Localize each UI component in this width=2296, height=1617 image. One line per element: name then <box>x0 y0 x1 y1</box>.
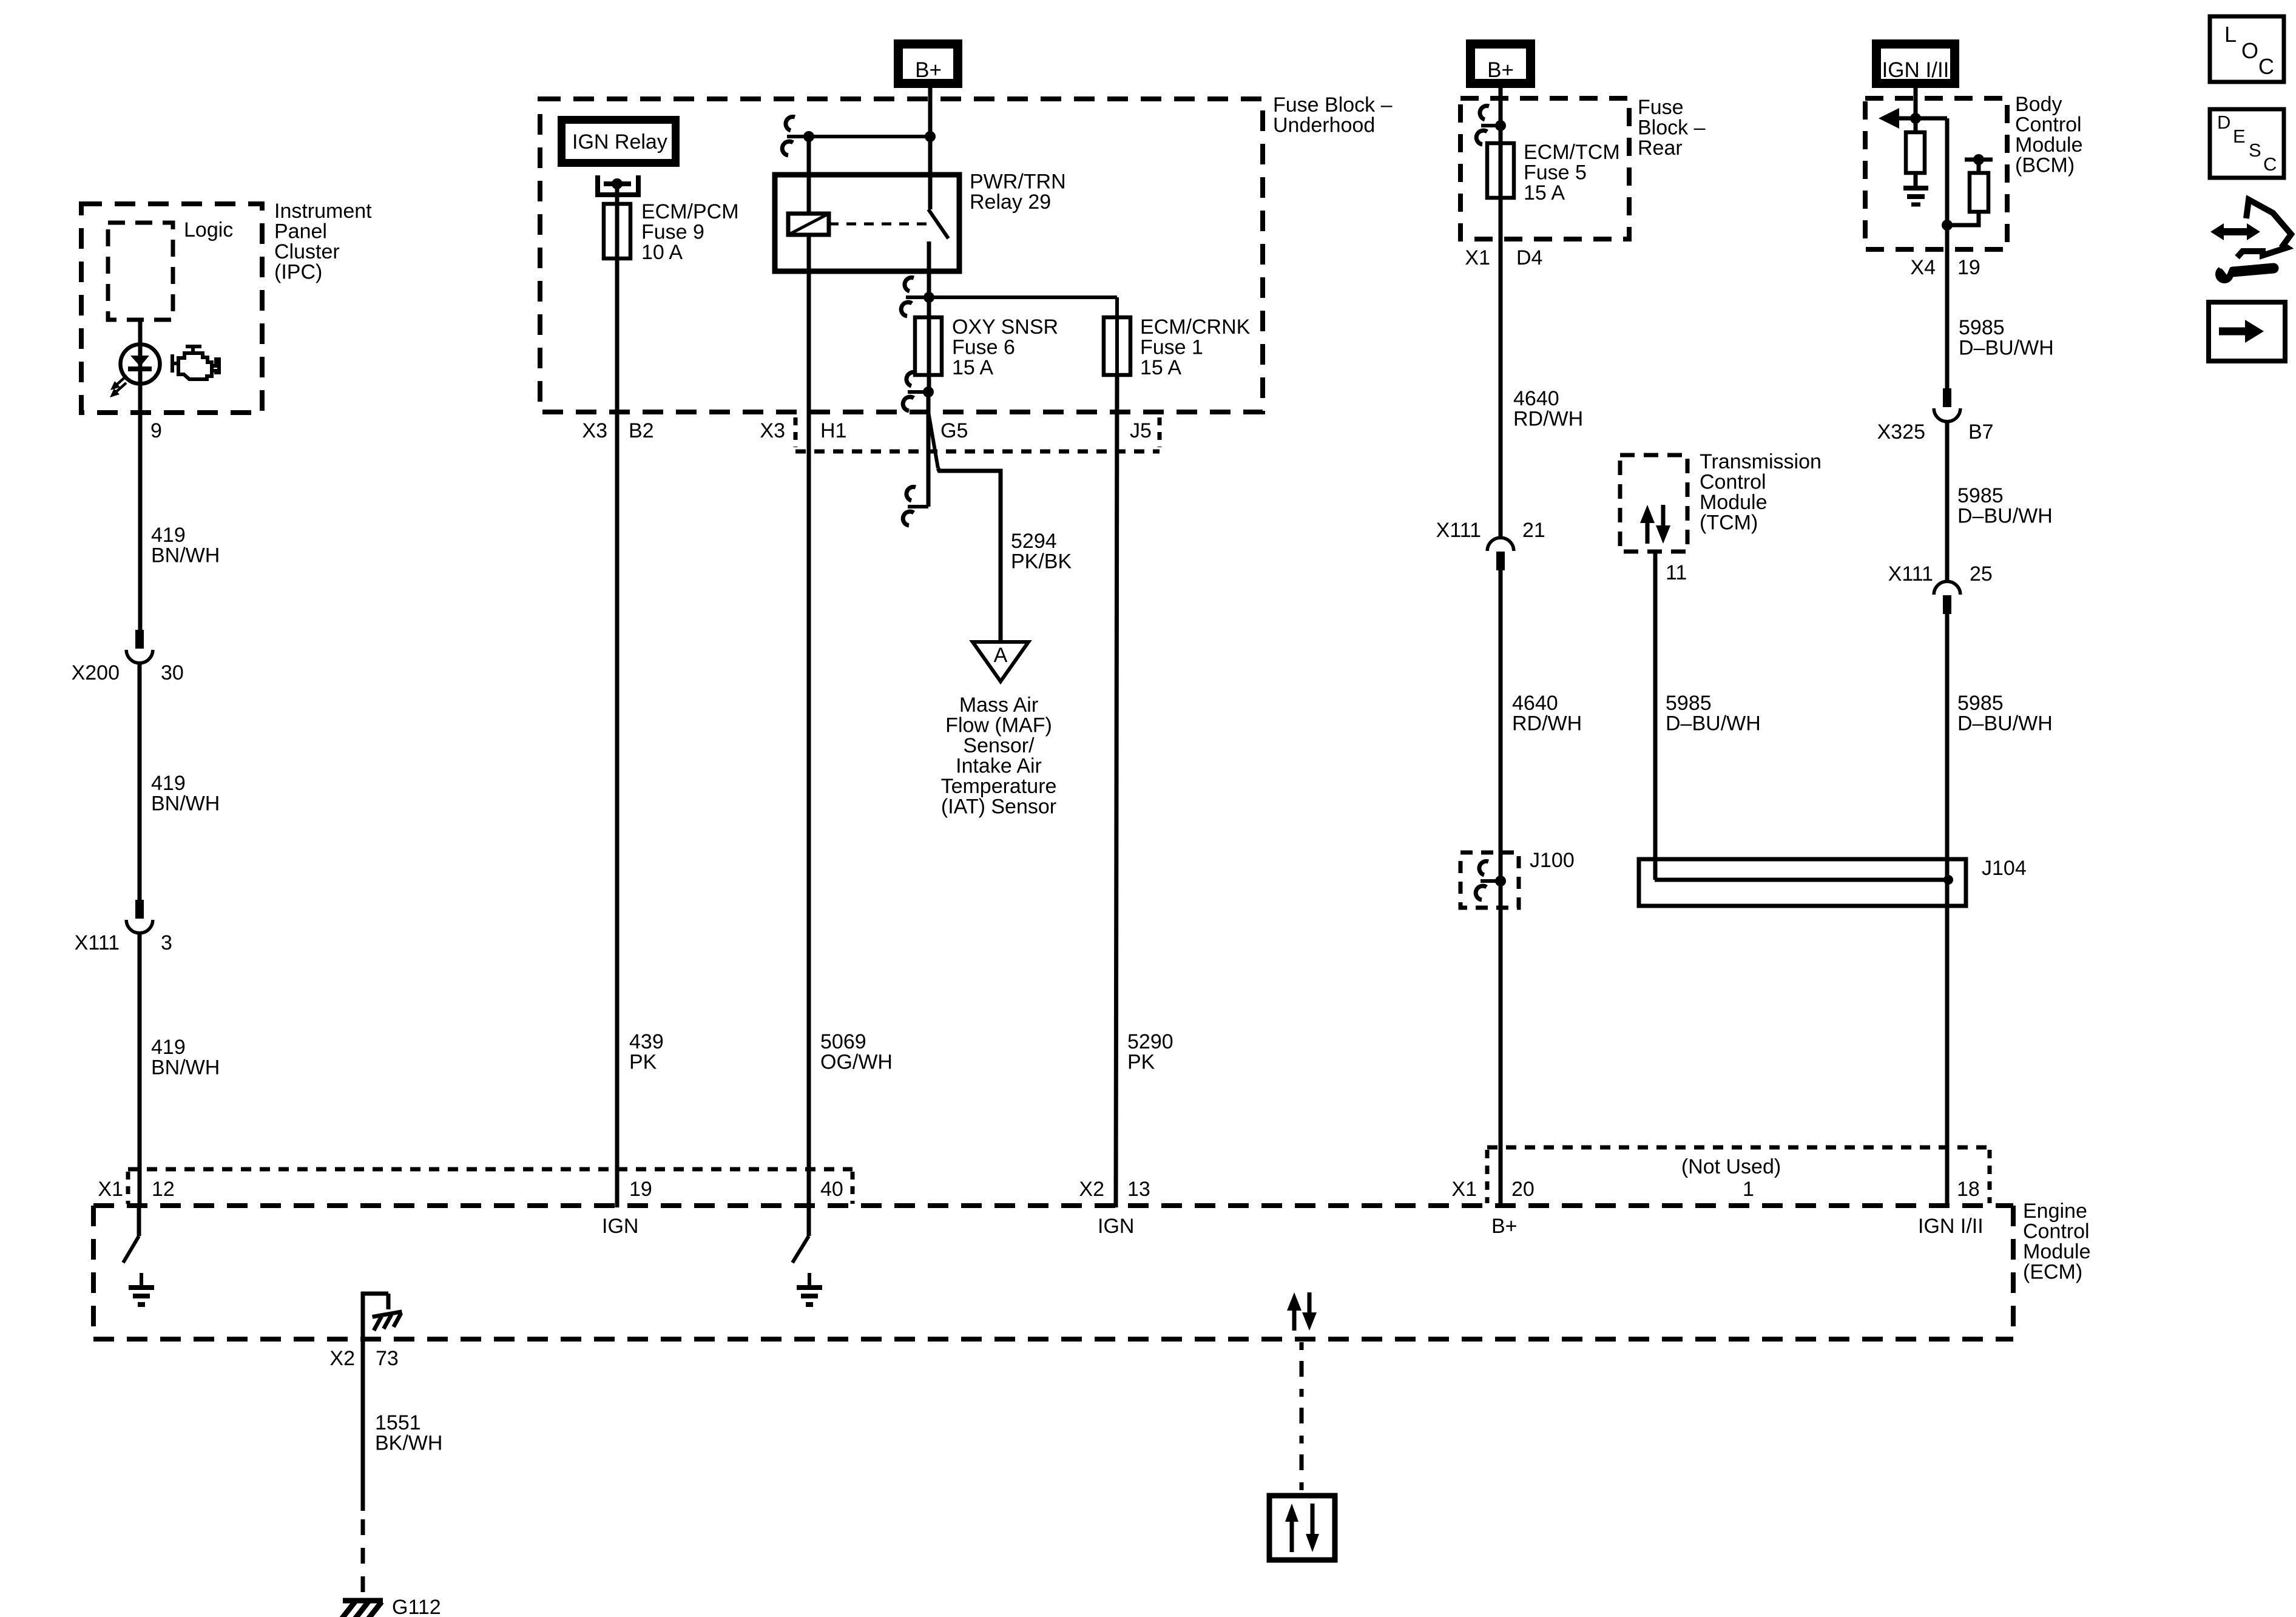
svg-text:BN/WH: BN/WH <box>151 792 220 815</box>
BCM corner wire down <box>1945 118 1950 225</box>
inline connector X111 pin 25 <box>1934 581 1960 595</box>
svg-text:Rear: Rear <box>1638 137 1683 160</box>
fuse F1 ECM/CRNK Fuse 1 15A <box>1104 317 1130 375</box>
engine icon (MIL) <box>172 346 219 379</box>
chassis ground symbol (internal) <box>371 1312 404 1331</box>
svg-text:D: D <box>2217 112 2230 133</box>
svg-text:Logic: Logic <box>184 218 233 241</box>
svg-text:25: 25 <box>1970 562 1993 586</box>
svg-text:X1: X1 <box>1451 1178 1477 1201</box>
svg-text:40: 40 <box>820 1178 843 1201</box>
svg-text:Fuse 5: Fuse 5 <box>1524 161 1587 184</box>
svg-text:Module: Module <box>2015 133 2083 157</box>
svg-text:15 A: 15 A <box>1524 181 1565 204</box>
svg-text:X1: X1 <box>98 1178 123 1201</box>
not-used box left tick <box>1485 1150 1490 1203</box>
wire 1551 below ECM <box>361 1339 365 1511</box>
connector band left tick <box>794 417 798 447</box>
ECM pin row left tick <box>126 1172 130 1204</box>
fuse F9 top bracket <box>598 175 638 195</box>
svg-text:3: 3 <box>161 931 172 954</box>
svg-text:J104: J104 <box>1982 857 2027 880</box>
inline connector X111 pin 21 <box>1487 538 1514 551</box>
svg-text:Fuse 1: Fuse 1 <box>1140 336 1203 359</box>
svg-text:B+: B+ <box>1487 58 1514 82</box>
sidebar double arrow <box>2221 228 2249 235</box>
splice box J100 <box>1460 852 1519 908</box>
TCM serial data arrows <box>1646 521 1650 544</box>
svg-text:X111: X111 <box>1436 519 1481 542</box>
off-page box arrows <box>1290 1519 1294 1552</box>
BCM right branch <box>1947 212 1979 225</box>
svg-text:9: 9 <box>150 419 162 442</box>
LED wire through <box>138 343 143 385</box>
svg-text:Control: Control <box>1700 471 1766 494</box>
svg-text:Fuse 9: Fuse 9 <box>641 221 704 244</box>
ECM serial data arrows <box>1292 1308 1297 1331</box>
svg-text:B+: B+ <box>915 58 942 82</box>
wire J5 column 5290 <box>1116 375 1117 1207</box>
wire G5 column upper <box>927 392 931 412</box>
svg-text:(Not Used): (Not Used) <box>1681 1155 1781 1178</box>
wire B+ down <box>928 88 933 175</box>
stub+hooks J100 <box>1481 879 1501 883</box>
wire 4640 seg1 <box>1499 143 1503 536</box>
relay switch blade <box>928 209 948 238</box>
svg-text:IGN: IGN <box>602 1215 638 1238</box>
wire G5 stub down <box>927 412 931 507</box>
wire coil column 5069 down <box>807 271 811 1207</box>
junction dot J104 <box>1943 875 1953 885</box>
junction dot fuse6 bottom <box>923 387 934 397</box>
relay box PWR/TRN Relay 29 <box>775 175 959 271</box>
svg-text:O: O <box>2241 38 2258 63</box>
ECM box right edge <box>2011 1206 2016 1339</box>
stub+hooks at fuse6 top junction <box>906 295 929 299</box>
svg-text:419: 419 <box>151 772 186 795</box>
chassis ground G112 <box>343 1598 383 1604</box>
svg-text:Fuse 6: Fuse 6 <box>952 336 1015 359</box>
stub+hooks fuse5 <box>1481 124 1501 127</box>
wire 1551 dashed to ground <box>361 1519 365 1598</box>
svg-text:OG/WH: OG/WH <box>820 1051 893 1074</box>
svg-text:C: C <box>2263 154 2277 175</box>
svg-text:1: 1 <box>1743 1178 1754 1201</box>
svg-text:ECM/TCM: ECM/TCM <box>1524 141 1620 164</box>
svg-text:Control: Control <box>2015 113 2082 137</box>
svg-text:Engine: Engine <box>2023 1200 2087 1223</box>
ECM box bottom <box>93 1337 2013 1342</box>
svg-text:439: 439 <box>629 1030 664 1053</box>
connector blade G5 <box>928 412 938 468</box>
svg-text:IGN Relay: IGN Relay <box>572 130 667 154</box>
wire BCM out <box>1945 225 1950 388</box>
junction dot coil feed <box>803 131 814 142</box>
ground inside ECM (pin40) <box>808 1273 811 1288</box>
svg-text:IGN I/II: IGN I/II <box>1882 58 1950 82</box>
wire coil to box bottom <box>807 235 811 271</box>
wire pin 12 into ECM <box>137 1206 141 1236</box>
relay coil <box>788 214 829 235</box>
svg-text:E: E <box>2233 126 2246 147</box>
svg-text:4640: 4640 <box>1512 692 1558 715</box>
svg-text:L: L <box>2224 22 2237 47</box>
svg-text:Transmission: Transmission <box>1700 450 1822 473</box>
svg-text:X3: X3 <box>582 419 607 442</box>
svg-text:Block –: Block – <box>1638 116 1706 140</box>
ECM pin row dotted line <box>128 1167 853 1172</box>
junction dot B+ wire <box>925 131 936 142</box>
fuse block underhood dashed box <box>540 99 1263 412</box>
svg-text:D4: D4 <box>1516 246 1542 269</box>
svg-text:419: 419 <box>151 1036 186 1059</box>
svg-text:4640: 4640 <box>1513 387 1559 410</box>
svg-text:ECM/CRNK: ECM/CRNK <box>1140 316 1251 339</box>
svg-text:(IPC): (IPC) <box>274 261 322 284</box>
LED diode triangle <box>130 356 149 366</box>
wire IGN I/II into BCM <box>1914 88 1918 132</box>
svg-text:G5: G5 <box>940 419 968 442</box>
wire 4640 seg2 <box>1499 570 1503 1206</box>
svg-text:A: A <box>994 644 1008 667</box>
svg-text:Flow (MAF): Flow (MAF) <box>945 714 1052 737</box>
stub+hooks below fuse6 <box>908 390 928 394</box>
junction dot BCM lower <box>1942 220 1953 231</box>
svg-text:18: 18 <box>1957 1178 1980 1201</box>
wire B+ into rear box <box>1499 88 1503 143</box>
svg-text:Cluster: Cluster <box>274 240 340 263</box>
svg-text:B+: B+ <box>1491 1215 1518 1238</box>
junction dot J100 <box>1495 876 1506 886</box>
svg-text:IGN: IGN <box>1098 1215 1134 1238</box>
relay dashed control link <box>829 223 927 226</box>
switch blade pin 40 <box>792 1236 809 1263</box>
IGN Relay label box <box>558 116 680 167</box>
relay switch wire upper <box>928 175 933 209</box>
svg-text:Body: Body <box>2015 93 2062 116</box>
svg-text:Instrument: Instrument <box>274 200 372 223</box>
ground inside ECM (pin12) <box>140 1273 143 1288</box>
svg-text:X1: X1 <box>1465 246 1490 269</box>
junction dot fuse6 top <box>923 292 934 303</box>
off-page arrow A (MAF) <box>973 642 1028 681</box>
J104 internal wire <box>1655 878 1948 882</box>
svg-text:30: 30 <box>161 661 184 684</box>
svg-text:19: 19 <box>629 1178 652 1201</box>
indicator LED L1 circle <box>121 345 160 384</box>
sidebar connector-tool icon outline <box>2237 200 2291 257</box>
svg-text:ECM/PCM: ECM/PCM <box>641 200 739 223</box>
svg-text:10 A: 10 A <box>641 241 683 264</box>
wire 419 segment 3 <box>138 933 142 1207</box>
svg-text:D–BU/WH: D–BU/WH <box>1957 505 2053 528</box>
svg-text:13: 13 <box>1127 1178 1150 1201</box>
svg-text:5985: 5985 <box>1666 692 1712 715</box>
svg-text:S: S <box>2249 140 2261 161</box>
svg-text:X111: X111 <box>75 931 120 954</box>
svg-text:Fuse: Fuse <box>1638 96 1684 119</box>
wire pin 40 into ECM <box>807 1206 811 1236</box>
svg-text:Module: Module <box>2023 1240 2091 1263</box>
BCM arrow to left <box>1897 116 1947 121</box>
module box Transmission Control Module (TCM) <box>1620 455 1687 552</box>
wire 419 segment 2 <box>138 663 142 900</box>
svg-text:X200: X200 <box>72 661 120 684</box>
svg-text:Temperature: Temperature <box>941 775 1057 798</box>
svg-text:C: C <box>2258 54 2274 79</box>
wire LED to pin 9 <box>138 385 143 630</box>
svg-text:PK: PK <box>1127 1051 1155 1074</box>
bus wire to fuse 1 <box>929 295 1117 299</box>
junction dot BCM top <box>1910 113 1921 124</box>
resistor R1 in BCM <box>1906 132 1925 173</box>
svg-text:B7: B7 <box>1968 420 1994 444</box>
svg-text:X4: X4 <box>1910 256 1936 279</box>
svg-text:Panel: Panel <box>274 220 327 243</box>
svg-text:Underhood: Underhood <box>1273 114 1375 137</box>
fuse F5 ECM/TCM Fuse 5 15A <box>1487 143 1514 198</box>
svg-text:(BCM): (BCM) <box>2015 154 2075 177</box>
svg-text:X325: X325 <box>1877 420 1925 444</box>
svg-text:Intake Air: Intake Air <box>956 755 1042 778</box>
svg-text:RD/WH: RD/WH <box>1513 408 1583 431</box>
module box Engine Control Module (ECM) top <box>93 1203 2013 1208</box>
wire TCM to J104 <box>1653 552 1658 880</box>
sidebar DESC box <box>2210 109 2284 178</box>
svg-text:J5: J5 <box>1130 419 1152 442</box>
svg-text:BK/WH: BK/WH <box>375 1432 442 1455</box>
svg-text:PWR/TRN: PWR/TRN <box>970 170 1066 194</box>
svg-text:X2: X2 <box>329 1347 355 1370</box>
svg-text:20: 20 <box>1511 1178 1535 1201</box>
ground in BCM <box>1903 186 1928 191</box>
svg-text:H1: H1 <box>820 419 846 442</box>
svg-text:Sensor/: Sensor/ <box>963 734 1035 757</box>
ECM box left edge <box>91 1206 96 1339</box>
LED emission arrows <box>116 376 127 385</box>
svg-text:(IAT) Sensor: (IAT) Sensor <box>941 795 1056 819</box>
svg-text:Control: Control <box>2023 1220 2090 1243</box>
svg-text:PK: PK <box>629 1051 657 1074</box>
R2 top T-bar <box>1965 158 1993 162</box>
svg-text:B2: B2 <box>629 419 654 442</box>
LED cathode bar <box>128 366 152 371</box>
svg-text:5985: 5985 <box>1959 316 2005 339</box>
svg-text:(ECM): (ECM) <box>2023 1261 2082 1284</box>
svg-text:Fuse Block –: Fuse Block – <box>1273 93 1393 116</box>
svg-text:OXY SNSR: OXY SNSR <box>952 316 1058 339</box>
svg-text:J100: J100 <box>1530 849 1575 872</box>
splice bus J104 <box>1639 859 1966 906</box>
svg-text:D–BU/WH: D–BU/WH <box>1959 337 2054 360</box>
sidebar arrow box <box>2209 302 2285 361</box>
svg-text:5985: 5985 <box>1957 484 2004 507</box>
junction dot fuse5 top <box>1495 120 1506 131</box>
bus wire to relay coil <box>787 135 930 138</box>
svg-text:X2: X2 <box>1079 1178 1104 1201</box>
svg-text:PK/BK: PK/BK <box>1011 550 1072 573</box>
serial data off-page box <box>1269 1496 1335 1560</box>
power feed box B+ (center) <box>894 39 962 88</box>
wire 5985 seg3 <box>1945 614 1950 1206</box>
module box Instrument Panel Cluster (IPC) <box>81 204 262 413</box>
svg-text:21: 21 <box>1522 519 1545 542</box>
wire coil feed down <box>807 137 811 214</box>
wire pin 20 <box>1499 916 1503 1206</box>
svg-text:BN/WH: BN/WH <box>151 544 220 567</box>
wire 5985 seg2 <box>1945 422 1950 580</box>
svg-text:1551: 1551 <box>375 1411 421 1434</box>
wire pin 18 <box>1945 899 1950 1206</box>
svg-text:5290: 5290 <box>1127 1030 1173 1053</box>
junction dot R2 top <box>1973 154 1984 165</box>
svg-text:15 A: 15 A <box>1140 356 1181 379</box>
logic block dashed box <box>108 223 173 320</box>
sidebar right arrow <box>2219 328 2246 336</box>
inline connector X111 pin 3 <box>135 900 144 919</box>
fuse F9 ECM/PCM Fuse 9 10A <box>604 204 630 258</box>
not-used box right tick <box>1988 1150 1992 1203</box>
power feed box IGN I/II <box>1872 39 1959 88</box>
svg-text:5985: 5985 <box>1957 692 2004 715</box>
svg-text:5069: 5069 <box>820 1030 866 1053</box>
module box Body Control Module (BCM) <box>1865 98 2007 249</box>
connector band right tick <box>1158 417 1162 447</box>
svg-text:Module: Module <box>1700 491 1768 514</box>
not-used dotted box top <box>1487 1146 1990 1150</box>
wire fuse9 upper <box>615 184 620 259</box>
resistor R2 in BCM <box>1970 173 1988 212</box>
svg-text:G112: G112 <box>392 1596 441 1617</box>
svg-text:5294: 5294 <box>1011 530 1057 553</box>
wire to MAF <box>938 468 1001 642</box>
svg-text:RD/WH: RD/WH <box>1512 712 1582 735</box>
svg-text:15 A: 15 A <box>952 356 993 379</box>
wire R1 to ground <box>1914 173 1918 187</box>
svg-text:D–BU/WH: D–BU/WH <box>1957 712 2053 735</box>
wire 439 PK B2 column <box>615 258 620 1207</box>
fuse block rear dashed box <box>1460 98 1629 239</box>
svg-text:12: 12 <box>152 1178 175 1201</box>
svg-text:(TCM): (TCM) <box>1700 511 1758 535</box>
ECM internal ground stub X2-73 <box>361 1292 365 1339</box>
power feed box B+ (right) <box>1466 39 1535 88</box>
inline connector X200 pin 30 <box>135 630 144 649</box>
stub jog + hooks G5 <box>908 505 928 508</box>
svg-text:X111: X111 <box>1888 562 1933 586</box>
svg-text:Relay 29: Relay 29 <box>970 191 1051 214</box>
svg-text:Mass Air: Mass Air <box>959 694 1038 717</box>
inline connector X325 pin B7 <box>1943 388 1951 407</box>
svg-text:11: 11 <box>1666 561 1687 584</box>
fuse F6 OXY SNSR Fuse 6 15A <box>915 317 942 375</box>
hook connector at bus left end <box>786 116 795 130</box>
switch blade pin 12 <box>123 1236 139 1263</box>
ECM pin row right tick <box>851 1172 855 1204</box>
svg-text:419: 419 <box>151 524 186 547</box>
dashed serial data wire <box>1300 1342 1304 1496</box>
sidebar LOC box <box>2210 16 2284 82</box>
svg-text:73: 73 <box>376 1347 399 1370</box>
svg-text:D–BU/WH: D–BU/WH <box>1666 712 1761 735</box>
sidebar wrench icon <box>2233 268 2274 272</box>
svg-text:BN/WH: BN/WH <box>151 1056 220 1079</box>
fuse F9 T-bar <box>604 181 631 186</box>
wire logic to LED <box>138 320 143 343</box>
relay switch lower contact <box>927 241 931 392</box>
connector band X3 dotted bottom <box>795 450 1160 454</box>
svg-text:19: 19 <box>1957 256 1980 279</box>
svg-text:X3: X3 <box>760 419 785 442</box>
junction dot fuse 9 <box>612 178 623 189</box>
svg-text:IGN I/II: IGN I/II <box>1918 1215 1984 1238</box>
